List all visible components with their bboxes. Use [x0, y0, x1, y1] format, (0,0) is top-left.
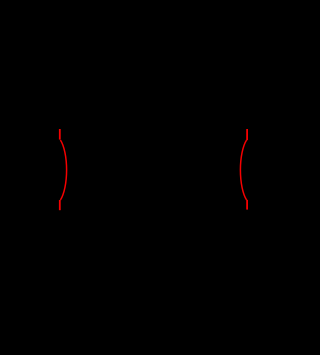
left bracket bottom tick: [59, 200, 61, 210]
left bracket arc: [60, 140, 66, 200]
right bracket bottom tick: [246, 200, 248, 210]
right bracket top tick: [246, 129, 248, 140]
right bracket arc: [240, 140, 246, 200]
left bracket top tick: [59, 129, 61, 140]
